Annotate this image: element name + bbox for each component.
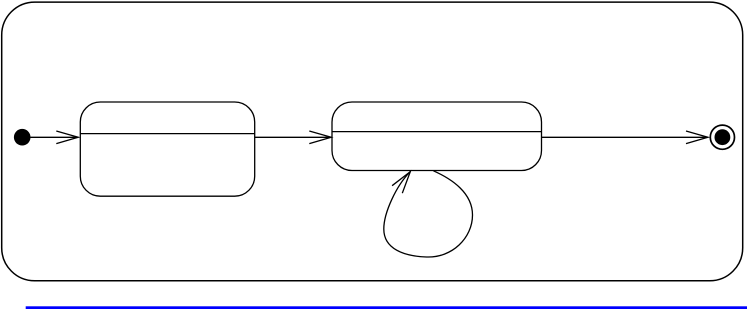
wire: initial to State1	[31, 136, 79, 138]
arrowhead into State1	[56, 131, 78, 144]
arrowhead of self-transition	[392, 172, 410, 194]
State2 name compartment divider	[332, 131, 542, 133]
state State1	[80, 102, 254, 196]
State1 name compartment divider	[80, 133, 254, 135]
footer rule (blue)	[26, 306, 747, 309]
final state inner dot	[715, 129, 731, 145]
initial state (filled circle)	[14, 129, 31, 146]
arrowhead into State2	[309, 131, 331, 144]
self-transition loop on State2	[384, 171, 473, 257]
wire: State1 to State2	[255, 136, 332, 138]
arrowhead into final state	[686, 131, 708, 144]
state State2	[332, 102, 542, 171]
wire: State2 to final	[542, 136, 708, 138]
final state outer ring	[710, 125, 734, 149]
